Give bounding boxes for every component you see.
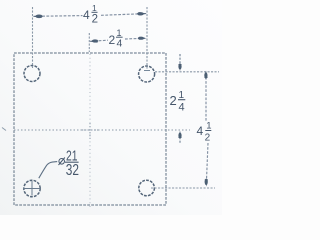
horizontal centerline [14, 129, 190, 131]
dimension 4 1/2 right: label [197, 120, 212, 143]
hole bottom-right [139, 180, 155, 196]
plate outline [14, 53, 166, 205]
hole top-left [24, 66, 40, 82]
vertical centerline [89, 54, 91, 208]
fraction bar of top 4 1/2 [92, 11, 98, 13]
dimension 2 1/4 right: arrow above [179, 54, 181, 64]
dimension 2 1/4 right: arrow below [179, 137, 181, 144]
dimension 2 1/4 top: arrowheads [90, 37, 147, 43]
svg-text:2: 2 [92, 13, 98, 25]
center mark cross [82, 123, 98, 139]
svg-text:2: 2 [170, 93, 177, 108]
centerline left tick [2, 128, 6, 131]
fraction bar of right 2 1/4 [178, 99, 185, 101]
hole bottom-left [24, 180, 40, 196]
hole top-right [139, 66, 155, 82]
svg-text:4: 4 [179, 102, 185, 114]
svg-text:32: 32 [66, 162, 79, 179]
svg-text:1: 1 [206, 120, 211, 131]
hole size label: 21 over 32 [66, 148, 79, 179]
dimension 2 1/4 top: label [109, 28, 123, 50]
extension line above right hole [146, 7, 148, 70]
dimension 4 1/2 right: line [206, 77, 208, 180]
fraction bar of top 2 1/4 [116, 36, 123, 38]
dimension 4 1/2 right: arrowheads [204, 71, 208, 187]
extension line right of bottom-right hole [151, 187, 215, 189]
dimension 2 1/4 top: line [90, 38, 146, 41]
dimension 4 1/2 top: arrowheads [33, 12, 147, 18]
leader line to hole callout [39, 162, 57, 179]
svg-text:2: 2 [109, 33, 116, 47]
fraction bar of right 4 1/2 [205, 130, 211, 132]
svg-text:1: 1 [92, 3, 97, 13]
svg-text:2: 2 [205, 132, 211, 143]
extension line right of top-right hole [155, 71, 219, 73]
extension line above plate center [88, 33, 90, 52]
crosshair in bottom-left hole [24, 181, 42, 196]
dimension 4 1/2 top: label [83, 3, 98, 25]
svg-text:1: 1 [117, 28, 122, 38]
svg-text:4: 4 [197, 124, 204, 138]
small tick in top-right hole [144, 70, 150, 72]
hole size label: diameter symbol [59, 158, 65, 166]
extension line above left hole [32, 7, 34, 68]
svg-text:4: 4 [117, 38, 123, 50]
dimension 2 1/4 right: label [170, 90, 185, 114]
fraction bar of 21/32 [65, 161, 79, 163]
svg-text:4: 4 [83, 8, 90, 22]
dimension 4 1/2 top: line [34, 14, 147, 17]
